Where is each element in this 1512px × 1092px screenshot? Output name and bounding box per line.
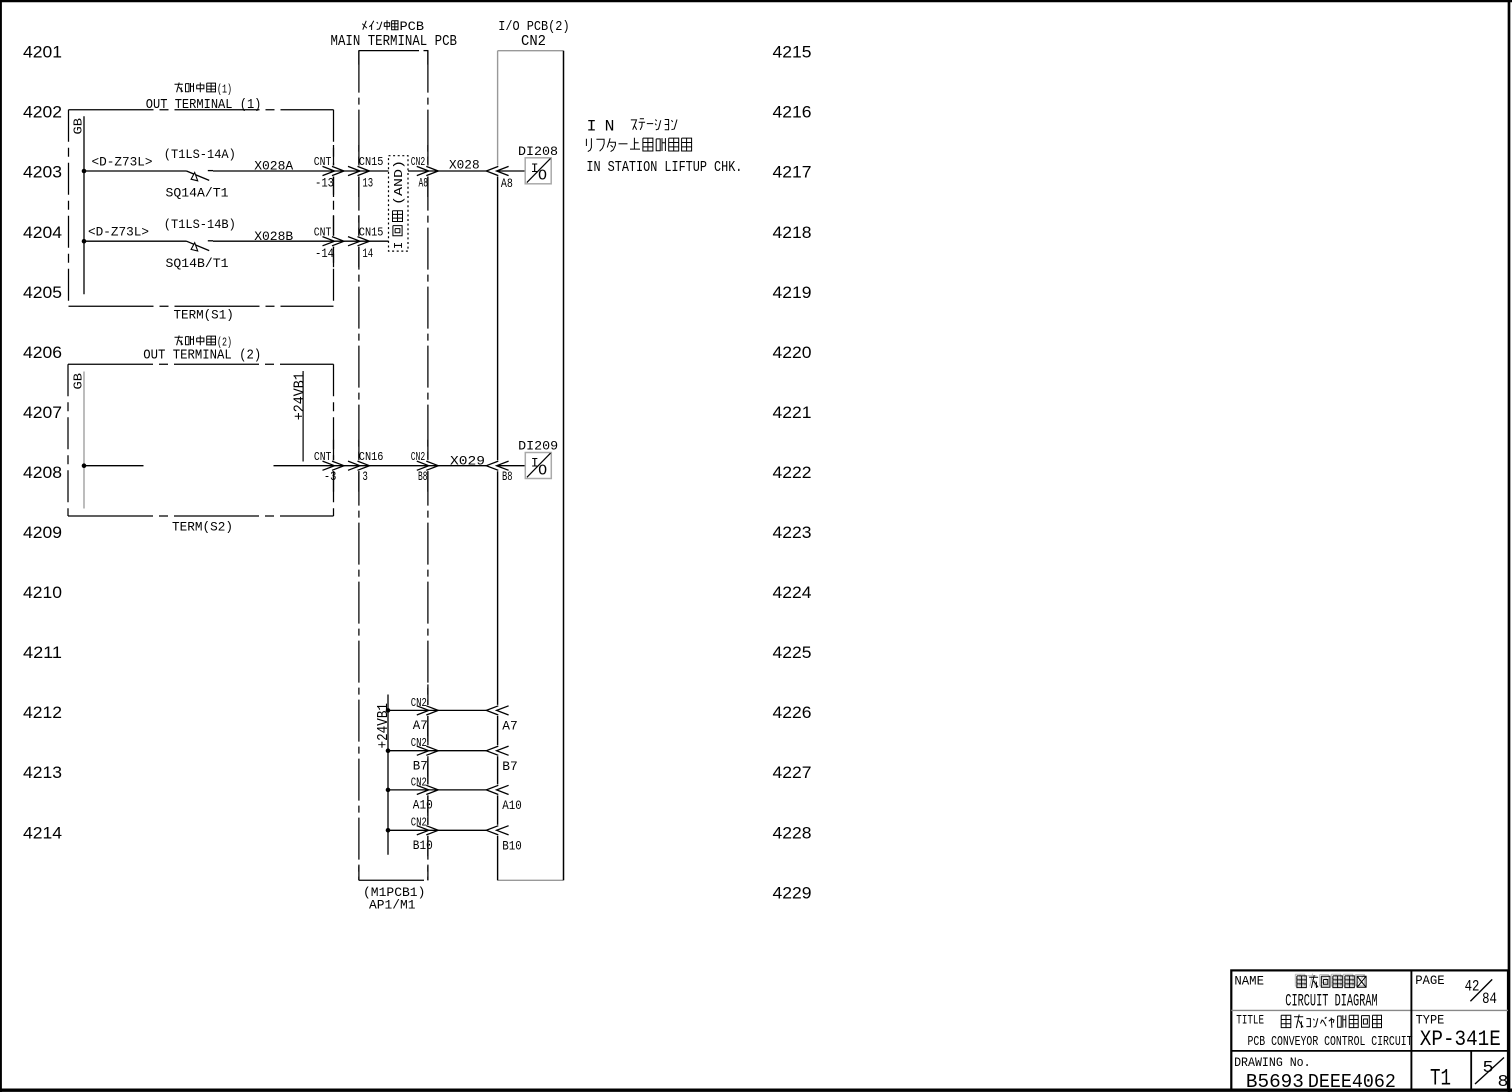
- svg-text:4220: 4220: [773, 344, 812, 362]
- svg-text:CN15: CN15: [359, 226, 384, 240]
- svg-text:(2): (2): [217, 335, 232, 349]
- svg-text:SQ14A/T1: SQ14A/T1: [166, 186, 229, 200]
- svg-text:4221: 4221: [773, 404, 812, 422]
- svg-text:(1): (1): [217, 82, 232, 96]
- svg-text:B7: B7: [502, 760, 518, 774]
- svg-text:TERM(S1): TERM(S1): [174, 308, 234, 323]
- svg-text:GB: GB: [72, 118, 86, 135]
- svg-text:TERM(S2): TERM(S2): [172, 520, 233, 535]
- svg-text:(AND): (AND): [392, 160, 406, 205]
- svg-text:CN2: CN2: [521, 33, 546, 50]
- svg-text:CNT: CNT: [314, 155, 332, 169]
- svg-text:O: O: [538, 462, 547, 479]
- svg-text:4205: 4205: [23, 284, 62, 302]
- svg-text:DRAWING No.: DRAWING No.: [1234, 1055, 1311, 1070]
- svg-text:CN2: CN2: [411, 450, 426, 464]
- svg-text:4225: 4225: [773, 644, 812, 662]
- svg-text:4208: 4208: [23, 464, 62, 482]
- svg-text:CN15: CN15: [359, 155, 384, 169]
- svg-text:PCB CONVEYOR CONTROL CIRCUIT: PCB CONVEYOR CONTROL CIRCUIT: [1248, 1034, 1413, 1050]
- svg-text:4219: 4219: [773, 284, 812, 302]
- svg-text:8: 8: [1498, 1073, 1509, 1092]
- svg-text:DI209: DI209: [518, 439, 558, 454]
- svg-text:(T1LS-14B): (T1LS-14B): [164, 218, 236, 232]
- svg-text:CNT: CNT: [314, 226, 332, 240]
- svg-text:MAIN TERMINAL PCB: MAIN TERMINAL PCB: [331, 33, 458, 50]
- svg-text:OUT TERMINAL (1): OUT TERMINAL (1): [146, 98, 262, 113]
- svg-text:14: 14: [362, 247, 373, 261]
- svg-text:84: 84: [1482, 990, 1497, 1008]
- svg-text:4224: 4224: [773, 584, 812, 602]
- svg-text:42: 42: [1465, 978, 1480, 996]
- svg-text:13: 13: [362, 177, 373, 191]
- svg-text:CNT: CNT: [314, 450, 332, 464]
- svg-text:4218: 4218: [773, 224, 812, 242]
- svg-text:B8: B8: [502, 470, 513, 484]
- svg-text:SQ14B/T1: SQ14B/T1: [166, 257, 229, 271]
- svg-text:A7: A7: [413, 719, 428, 733]
- svg-text:B10: B10: [502, 840, 522, 854]
- svg-text:CN2: CN2: [411, 696, 427, 710]
- svg-text:4211: 4211: [23, 644, 62, 662]
- svg-text:<D-Z73L>: <D-Z73L>: [88, 226, 149, 240]
- svg-text:<D-Z73L>: <D-Z73L>: [92, 155, 153, 169]
- svg-text:X028A: X028A: [254, 159, 293, 174]
- svg-text:I: I: [392, 242, 406, 249]
- svg-text:B10: B10: [413, 839, 433, 853]
- svg-text:OUT TERMINAL (2): OUT TERMINAL (2): [143, 349, 261, 364]
- svg-text:4229: 4229: [773, 884, 812, 902]
- svg-text:4201: 4201: [23, 44, 62, 62]
- svg-text:X028B: X028B: [254, 229, 293, 244]
- svg-text:4227: 4227: [773, 764, 812, 782]
- svg-text:4223: 4223: [773, 524, 812, 542]
- svg-text:PCB: PCB: [400, 19, 425, 34]
- svg-text:-3: -3: [324, 470, 337, 484]
- svg-text:TITLE: TITLE: [1236, 1012, 1264, 1027]
- svg-text:TYPE: TYPE: [1416, 1013, 1445, 1028]
- svg-text:IN STATION LIFTUP CHK.: IN STATION LIFTUP CHK.: [586, 160, 742, 176]
- svg-text:4202: 4202: [23, 104, 62, 122]
- svg-text:XP-341E: XP-341E: [1420, 1027, 1501, 1052]
- svg-text:CN2: CN2: [411, 816, 427, 830]
- svg-text:4213: 4213: [23, 764, 62, 782]
- svg-text:3: 3: [362, 470, 368, 484]
- svg-text:4204: 4204: [23, 224, 62, 242]
- svg-text:X029: X029: [450, 453, 485, 468]
- svg-text:A10: A10: [502, 799, 522, 813]
- svg-text:B5693: B5693: [1246, 1071, 1304, 1092]
- svg-text:CN2: CN2: [411, 775, 427, 789]
- svg-text:4206: 4206: [23, 344, 62, 362]
- svg-text:-13: -13: [315, 177, 334, 191]
- svg-text:AP1/M1: AP1/M1: [369, 897, 416, 912]
- svg-text:4207: 4207: [23, 404, 62, 422]
- svg-text:CN2: CN2: [411, 736, 427, 750]
- svg-text:4203: 4203: [23, 164, 62, 182]
- svg-text:CN16: CN16: [359, 450, 384, 464]
- svg-text:T1: T1: [1430, 1066, 1451, 1092]
- svg-text:4214: 4214: [23, 824, 62, 842]
- svg-text:-14: -14: [315, 247, 334, 261]
- svg-text:4212: 4212: [23, 704, 62, 722]
- svg-text:CN2: CN2: [411, 155, 426, 169]
- svg-text:PAGE: PAGE: [1415, 973, 1445, 988]
- svg-text:4226: 4226: [773, 704, 812, 722]
- svg-text:DI208: DI208: [518, 144, 558, 159]
- svg-text:B8: B8: [418, 470, 428, 484]
- svg-text:A8: A8: [501, 177, 513, 191]
- svg-text:B7: B7: [413, 760, 428, 774]
- svg-text:4215: 4215: [773, 44, 812, 62]
- svg-text:O: O: [538, 168, 547, 185]
- svg-text:4222: 4222: [773, 464, 812, 482]
- svg-text:A8: A8: [419, 177, 429, 191]
- svg-text:A7: A7: [502, 720, 518, 734]
- svg-text:(T1LS-14A): (T1LS-14A): [164, 148, 236, 162]
- svg-text:CIRCUIT DIAGRAM: CIRCUIT DIAGRAM: [1285, 991, 1377, 1011]
- svg-text:+24VB1: +24VB1: [291, 372, 308, 420]
- svg-text:4228: 4228: [773, 824, 812, 842]
- svg-text:4209: 4209: [23, 524, 62, 542]
- svg-text:4217: 4217: [773, 164, 812, 182]
- svg-text:NAME: NAME: [1234, 974, 1264, 989]
- svg-text:A10: A10: [413, 799, 433, 813]
- svg-text:DEEE4062: DEEE4062: [1308, 1071, 1396, 1092]
- svg-text:X028: X028: [449, 158, 480, 173]
- svg-text:4216: 4216: [773, 104, 812, 122]
- svg-text:IN: IN: [587, 118, 623, 136]
- svg-text:4210: 4210: [23, 584, 62, 602]
- svg-text:GB: GB: [72, 373, 86, 390]
